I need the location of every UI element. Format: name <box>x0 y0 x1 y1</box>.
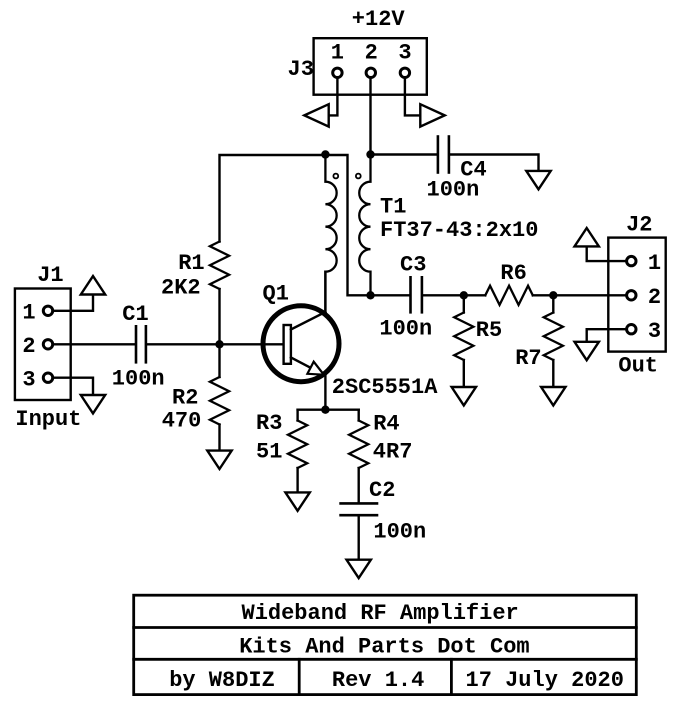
svg-text:Q1: Q1 <box>263 282 289 307</box>
svg-text:100n: 100n <box>427 177 480 202</box>
svg-text:2K2: 2K2 <box>161 276 201 301</box>
svg-text:R7: R7 <box>515 346 541 371</box>
svg-text:4R7: 4R7 <box>373 439 413 464</box>
svg-text:R4: R4 <box>373 411 399 436</box>
svg-text:Kits And Parts Dot Com: Kits And Parts Dot Com <box>239 635 529 660</box>
svg-text:1: 1 <box>22 300 35 325</box>
svg-text:J3: J3 <box>288 57 314 82</box>
svg-text:C3: C3 <box>400 253 426 278</box>
svg-text:R1: R1 <box>178 251 204 276</box>
svg-text:2: 2 <box>365 41 378 66</box>
svg-text:FT37-43:2x10: FT37-43:2x10 <box>380 218 538 243</box>
svg-text:J2: J2 <box>626 213 652 238</box>
svg-text:470: 470 <box>162 408 202 433</box>
svg-text:1: 1 <box>648 251 661 276</box>
svg-text:100n: 100n <box>112 367 165 392</box>
svg-text:1: 1 <box>331 41 344 66</box>
svg-text:R6: R6 <box>500 261 526 286</box>
svg-text:Out: Out <box>618 354 658 379</box>
svg-text:T1: T1 <box>380 194 406 219</box>
svg-text:3: 3 <box>398 41 411 66</box>
svg-text:2SC5551A: 2SC5551A <box>332 375 438 400</box>
svg-text:R5: R5 <box>476 318 502 343</box>
svg-text:Rev 1.4: Rev 1.4 <box>332 668 424 693</box>
svg-text:by W8DIZ: by W8DIZ <box>169 668 275 693</box>
svg-text:C2: C2 <box>369 478 395 503</box>
svg-text:2: 2 <box>22 334 35 359</box>
svg-text:R3: R3 <box>256 411 282 436</box>
svg-text:100n: 100n <box>373 520 426 545</box>
svg-text:2: 2 <box>648 285 661 310</box>
svg-text:R2: R2 <box>172 385 198 410</box>
svg-text:100n: 100n <box>379 317 432 342</box>
svg-text:+12V: +12V <box>352 7 406 32</box>
svg-text:Wideband RF Amplifier: Wideband RF Amplifier <box>242 601 519 626</box>
svg-text:51: 51 <box>256 439 282 464</box>
svg-text:3: 3 <box>22 367 35 392</box>
svg-text:Input: Input <box>15 407 81 432</box>
svg-text:17 July 2020: 17 July 2020 <box>466 668 624 693</box>
svg-text:J1: J1 <box>37 263 63 288</box>
svg-text:3: 3 <box>648 319 661 344</box>
svg-text:C1: C1 <box>122 302 148 327</box>
